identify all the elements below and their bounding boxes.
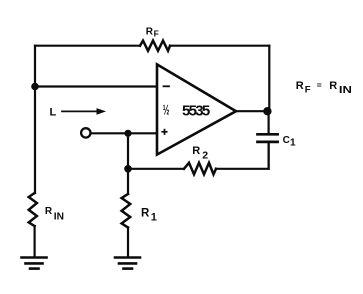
svg-text:R: R xyxy=(45,206,53,217)
node junction R2 tap xyxy=(124,165,132,173)
svg-text:IN: IN xyxy=(54,212,64,223)
svg-text:IN: IN xyxy=(339,84,352,96)
svg-text:1: 1 xyxy=(290,137,296,148)
wire inverting input xyxy=(35,85,157,87)
svg-text:F: F xyxy=(154,28,159,38)
op-amp U1 xyxy=(157,64,236,154)
svg-text:R: R xyxy=(329,80,337,92)
capacitor C1 xyxy=(258,134,278,142)
svg-text:C: C xyxy=(283,135,290,146)
arrow input direction xyxy=(62,108,106,115)
wire left rail xyxy=(34,46,36,193)
resistor RIN xyxy=(29,193,37,226)
resistor R1 xyxy=(122,194,131,228)
wire output xyxy=(236,110,269,112)
wire R1 bottom lead xyxy=(127,228,129,257)
svg-text:2: 2 xyxy=(202,150,208,162)
svg-text:1: 1 xyxy=(151,212,157,224)
label R1 xyxy=(141,208,157,224)
wire top feedback right segment xyxy=(170,45,269,47)
ground under R1 xyxy=(115,258,140,269)
svg-text:½: ½ xyxy=(163,102,170,117)
svg-text:R: R xyxy=(296,80,304,92)
terminal input xyxy=(81,128,90,137)
wire RIN bottom lead xyxy=(33,226,35,257)
svg-text:L: L xyxy=(50,106,57,118)
svg-text:F: F xyxy=(305,84,311,95)
node junction left rail to inverting input xyxy=(31,83,39,91)
label RIN xyxy=(45,206,64,223)
wire capacitor bottom lead xyxy=(268,142,270,169)
wire R2 right segment xyxy=(216,142,269,169)
wire noninverting input xyxy=(91,132,157,134)
wire right rail xyxy=(268,46,270,112)
node junction output xyxy=(263,107,271,115)
label C1 xyxy=(283,135,296,149)
svg-text:R: R xyxy=(141,208,150,220)
label L xyxy=(50,106,57,118)
label R2 xyxy=(192,145,208,162)
svg-text:5535: 5535 xyxy=(182,103,210,120)
ground under RIN xyxy=(22,258,47,269)
label half 5535 xyxy=(163,102,210,119)
wire mid vertical xyxy=(127,133,129,194)
pin plus sign xyxy=(162,130,166,134)
pin minus sign xyxy=(164,85,170,87)
svg-text:=: = xyxy=(317,80,322,90)
resistor R2 xyxy=(184,163,216,175)
resistor RF xyxy=(140,41,170,51)
wire capacitor top lead xyxy=(268,111,270,134)
wire top feedback left segment xyxy=(35,45,140,47)
wire R2 left segment xyxy=(128,168,184,170)
label RF equals RIN xyxy=(296,80,352,96)
label RF xyxy=(146,26,159,38)
svg-text:R: R xyxy=(192,145,200,157)
svg-text:R: R xyxy=(146,26,154,37)
node junction noninverting xyxy=(124,130,131,137)
